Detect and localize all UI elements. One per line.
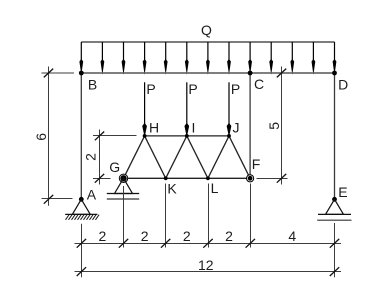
- ground hatching at A: [66, 215, 100, 220]
- column B-A: [80, 73, 82, 199]
- overall dimension line (12): [75, 271, 342, 273]
- truss diagonal K-I: [166, 136, 187, 178]
- svg-text:D: D: [338, 76, 348, 92]
- dimension 2 (truss height): extension line at H level: [93, 135, 137, 137]
- pin node F (hinge circle): [247, 175, 254, 182]
- load arrow 9: [248, 42, 252, 75]
- load arrow 3: [122, 42, 126, 75]
- svg-text:P: P: [188, 81, 197, 97]
- tick at A: [77, 239, 86, 248]
- extension line below K: [165, 184, 167, 248]
- node I: [185, 134, 189, 138]
- tick at K: [161, 239, 170, 248]
- extension line below F: [250, 184, 252, 248]
- tick at E: [330, 239, 339, 248]
- truss diagonal G-H: [124, 136, 145, 178]
- svg-text:A: A: [87, 186, 97, 202]
- svg-text:12: 12: [198, 257, 214, 273]
- svg-text:2: 2: [141, 228, 149, 244]
- dimension 5: extension line at F level right of F: [257, 178, 288, 180]
- extension line below E support: [334, 223, 336, 277]
- tick at A (12-line): [77, 267, 86, 276]
- tick at F: [246, 239, 255, 248]
- svg-text:B: B: [88, 77, 97, 93]
- svg-text:4: 4: [288, 228, 296, 244]
- dimension 6: extension line at beam level left of B: [42, 72, 75, 74]
- svg-text:F: F: [252, 156, 261, 172]
- truss diagonal J-F: [229, 136, 250, 178]
- extension line below A support: [81, 224, 83, 278]
- roller ground line 1 at E: [318, 213, 351, 215]
- svg-text:I: I: [192, 119, 196, 135]
- load arrow 1: [79, 42, 83, 75]
- node C: [248, 71, 253, 76]
- svg-text:E: E: [338, 184, 347, 200]
- svg-text:5: 5: [266, 122, 282, 130]
- roller ground line 2 under G: [107, 198, 139, 200]
- load arrow 4: [143, 42, 147, 75]
- bottom dimension line (2,2,2,2,4): [75, 243, 342, 245]
- roller ground line 1 under G: [107, 193, 139, 195]
- dimension 2: vertical dimension line: [99, 130, 101, 185]
- node D: [332, 71, 337, 76]
- svg-text:P: P: [146, 81, 155, 97]
- extension line below G: [123, 186, 125, 248]
- load arrow 8: [227, 42, 231, 75]
- truss top chord H-I-J: [145, 135, 229, 137]
- svg-text:H: H: [149, 119, 159, 135]
- node J: [227, 134, 231, 138]
- svg-text:C: C: [254, 76, 264, 92]
- dimension 6: extension line at A level: [42, 198, 73, 200]
- load arrow 12: [312, 42, 316, 75]
- load arrow 13: [333, 42, 337, 75]
- dimension 2: top tick: [95, 132, 104, 141]
- truss diagonal I-L: [187, 136, 208, 178]
- load arrow 7: [206, 42, 210, 75]
- dimension 5: vertical dimension line: [281, 67, 283, 185]
- beam B-C-D: [81, 72, 334, 74]
- dimension 6: vertical dimension line: [48, 67, 50, 206]
- ground line at A: [65, 213, 97, 215]
- dimension 5: top tick: [277, 69, 286, 78]
- pin node G (hinge circle): [119, 174, 127, 182]
- load arrow 6: [185, 42, 189, 75]
- dimension 5: bottom tick: [277, 174, 286, 183]
- truss bottom chord G-K-L-F: [124, 177, 251, 179]
- svg-text:L: L: [211, 180, 219, 196]
- roller ground line 2 at E: [317, 219, 351, 221]
- node K: [164, 176, 168, 180]
- node A: [79, 197, 84, 202]
- force P arrow at H: [142, 82, 147, 137]
- svg-text:J: J: [233, 119, 240, 135]
- column C-F: [249, 73, 251, 178]
- node L: [206, 176, 210, 180]
- load arrow 2: [101, 42, 105, 75]
- dimension 6: bottom tick: [44, 195, 53, 204]
- load arrow 5: [164, 42, 168, 75]
- svg-text:G: G: [109, 159, 120, 175]
- force P arrow at J: [227, 82, 232, 137]
- column D-E: [334, 73, 336, 199]
- svg-text:Q: Q: [201, 22, 212, 38]
- dimension 2: extension line at G level: [93, 178, 111, 180]
- dimension 6: top tick: [44, 69, 53, 78]
- roller support at E (triangle): [326, 199, 344, 214]
- node H: [143, 134, 147, 138]
- svg-text:2: 2: [82, 153, 98, 161]
- dimension 2: bottom tick: [95, 174, 104, 183]
- node E: [332, 197, 337, 202]
- tick at E (12-line): [330, 267, 339, 276]
- extension line below L: [208, 184, 210, 248]
- tick at G: [119, 239, 128, 248]
- svg-text:6: 6: [33, 133, 49, 141]
- truss diagonal H-K: [145, 136, 166, 178]
- pin support at A (triangle): [72, 199, 90, 214]
- svg-text:2: 2: [183, 228, 191, 244]
- distributed load top line: [81, 41, 334, 43]
- node B: [79, 71, 84, 76]
- svg-text:2: 2: [99, 228, 107, 244]
- svg-text:2: 2: [225, 228, 233, 244]
- roller support under G (triangle): [115, 178, 133, 193]
- load arrow 10: [269, 42, 273, 75]
- force P arrow at I: [184, 82, 189, 137]
- load arrow 11: [290, 42, 294, 75]
- svg-text:P: P: [231, 81, 240, 97]
- svg-text:K: K: [167, 180, 177, 196]
- tick at L: [203, 239, 212, 248]
- truss diagonal L-J: [208, 136, 229, 178]
